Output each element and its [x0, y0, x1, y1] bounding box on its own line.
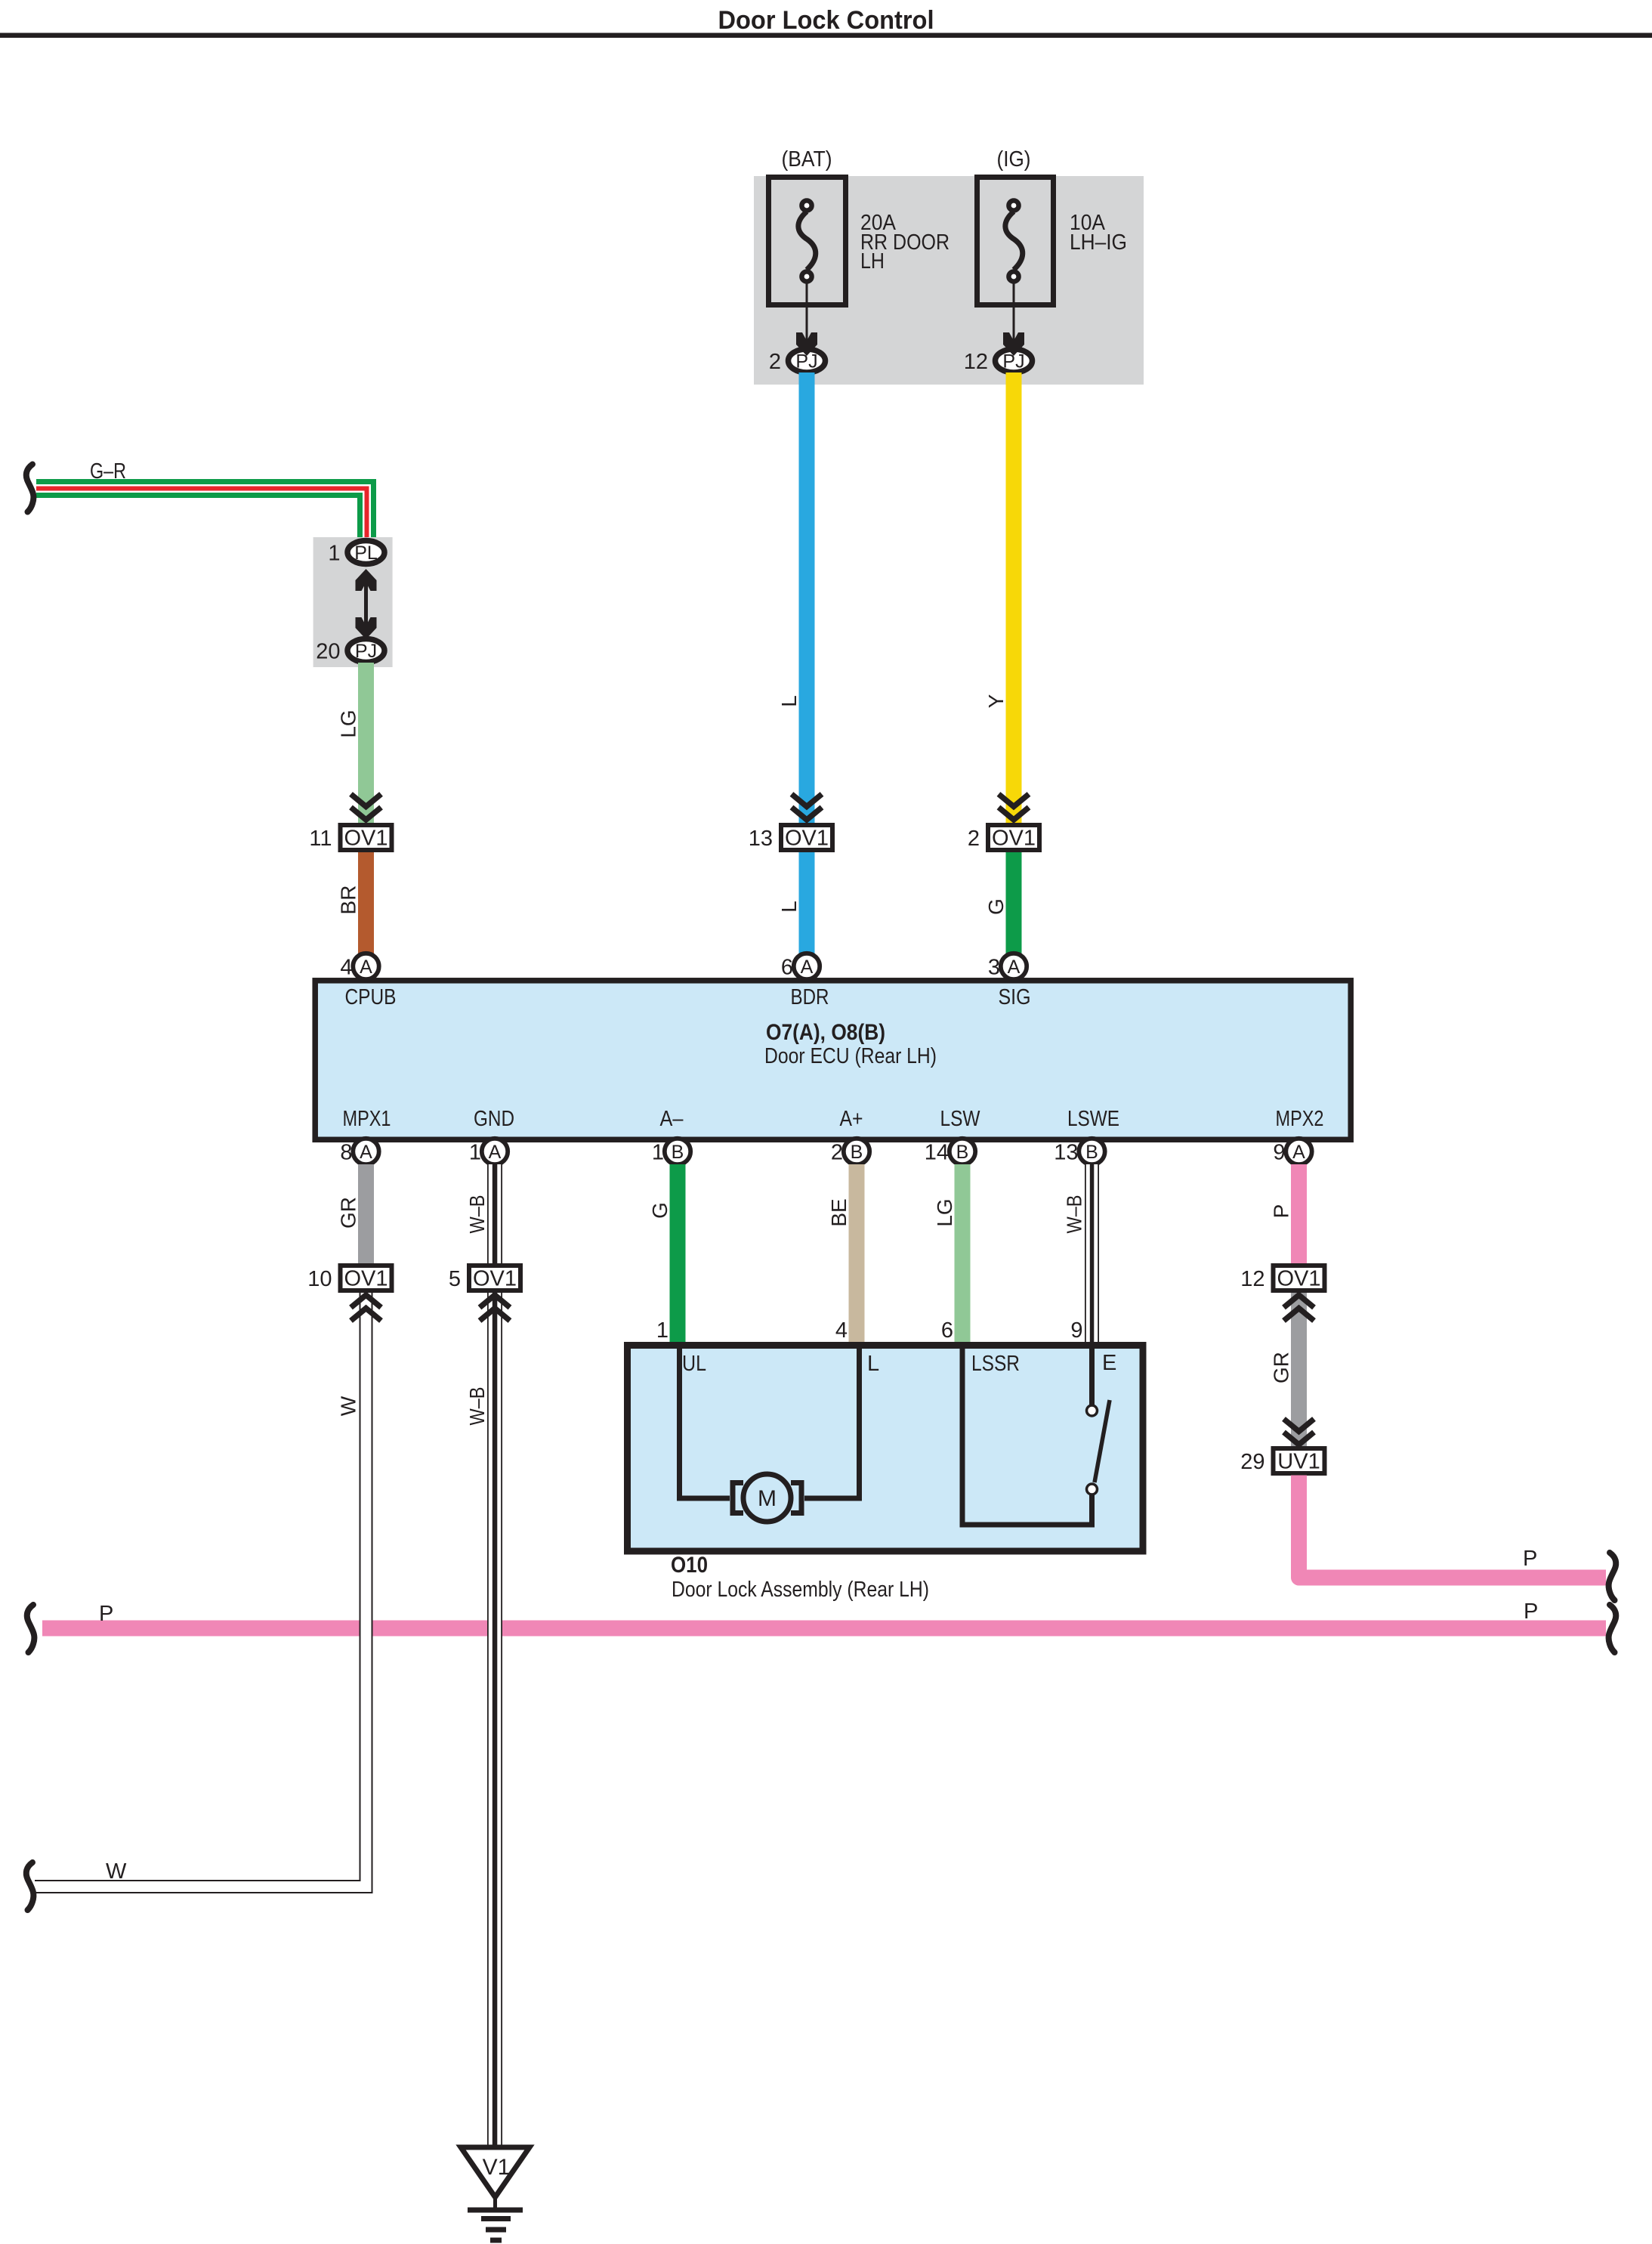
svg-text:A–: A–	[660, 1107, 684, 1131]
internal wire L to motor	[804, 1346, 860, 1498]
svg-text:P: P	[1524, 1600, 1538, 1624]
svg-text:W: W	[337, 1396, 360, 1416]
svg-text:3: 3	[988, 956, 1000, 980]
svg-text:2: 2	[769, 350, 781, 374]
wire break brace left G-R	[26, 465, 34, 512]
svg-text:LG: LG	[337, 709, 360, 737]
svg-text:O7(A), O8(B): O7(A), O8(B)	[766, 1020, 885, 1045]
svg-text:12: 12	[964, 350, 988, 374]
svg-text:A: A	[1008, 957, 1021, 978]
svg-text:LSWE: LSWE	[1067, 1107, 1119, 1131]
connector 1 PL	[347, 541, 384, 564]
wire Y (yellow) from PJ to OV1	[1006, 372, 1022, 824]
svg-text:LH–IG: LH–IG	[1070, 230, 1127, 255]
svg-text:LSSR: LSSR	[971, 1352, 1020, 1376]
switch contact bottom	[1087, 1484, 1098, 1494]
internal wire UL to motor	[680, 1346, 730, 1498]
ECU pin 6 A (BDR)	[794, 954, 820, 979]
svg-text:M: M	[758, 1486, 777, 1511]
svg-text:BR: BR	[337, 886, 360, 915]
svg-text:P: P	[1523, 1547, 1537, 1571]
svg-text:Door Lock Control: Door Lock Control	[718, 6, 934, 35]
wire break brace right	[1609, 1553, 1616, 1600]
wire G (green) from OV1 to SIG pin	[1006, 848, 1022, 954]
svg-text:(IG): (IG)	[997, 147, 1031, 172]
svg-text:UL: UL	[682, 1352, 706, 1376]
svg-text:1: 1	[652, 1141, 664, 1165]
wire BE (beige) from A+ pin to door lock pin 4	[849, 1164, 865, 1348]
svg-text:14: 14	[925, 1141, 949, 1165]
svg-text:5: 5	[449, 1267, 461, 1291]
motor brush right	[791, 1483, 801, 1513]
svg-text:20: 20	[316, 640, 340, 664]
switch contact top	[1087, 1405, 1098, 1416]
wire GR behind chevrons	[1291, 1293, 1307, 1334]
svg-text:GR: GR	[1270, 1352, 1293, 1383]
wire W behind chevrons	[360, 1293, 373, 1334]
connector 13 OV1 on wire L	[792, 794, 822, 807]
svg-text:B: B	[1085, 1142, 1098, 1163]
wire LG (light green) from PJ to OV1	[358, 663, 374, 824]
wire P (pink) from UV1 to right break	[1299, 1476, 1607, 1578]
svg-text:W: W	[106, 1859, 127, 1884]
svg-text:GR: GR	[337, 1197, 360, 1229]
connector 20 PJ	[347, 639, 384, 663]
svg-text:13: 13	[1054, 1141, 1078, 1165]
svg-text:OV1: OV1	[344, 827, 388, 851]
ECU pin 9 A (MPX2)	[1286, 1139, 1311, 1164]
wire W-B behind chevrons	[487, 1293, 502, 1334]
svg-text:A: A	[360, 957, 372, 978]
ECU pin 14 B (LSW)	[950, 1139, 975, 1164]
svg-text:G–R: G–R	[90, 459, 126, 484]
svg-text:OV1: OV1	[473, 1267, 517, 1291]
svg-text:9: 9	[1273, 1141, 1285, 1165]
svg-text:A: A	[360, 1142, 372, 1163]
motor M	[743, 1474, 791, 1522]
wire W-B from GND pin to OV1	[487, 1164, 502, 1266]
svg-text:B: B	[851, 1142, 863, 1163]
svg-text:SIG: SIG	[999, 985, 1031, 1009]
ground stem and bars	[493, 2197, 497, 2210]
svg-text:V1: V1	[483, 2155, 511, 2180]
svg-text:B: B	[956, 1142, 969, 1163]
wire W-B from LSWE pin to door lock pin 9	[1085, 1164, 1099, 1348]
motor brush left	[733, 1483, 743, 1513]
wire GR (gray) from MPX1 pin to OV1	[358, 1164, 374, 1266]
ECU pin 8 A (MPX1)	[353, 1139, 378, 1164]
fuse 10A LH-IG	[977, 178, 1054, 305]
ECU pin 1 B (A-)	[665, 1139, 690, 1164]
connector 10 OV1 on wire GR/W	[341, 1266, 392, 1290]
svg-text:P: P	[99, 1602, 113, 1626]
svg-text:L: L	[777, 695, 801, 707]
ECU pin 2 B (A+)	[844, 1139, 869, 1164]
svg-text:W–B: W–B	[465, 1387, 489, 1426]
svg-text:13: 13	[749, 827, 773, 851]
connector 29 UV1 on wire GR/P	[1274, 1448, 1325, 1473]
ECU pin 4 A (CPUB)	[353, 954, 378, 979]
svg-text:A: A	[801, 957, 814, 978]
svg-text:6: 6	[941, 1318, 953, 1343]
svg-text:4: 4	[340, 956, 352, 980]
Door ECU (Rear LH) box O7(A) O8(B)	[315, 981, 1351, 1140]
svg-text:LSW: LSW	[940, 1107, 981, 1131]
svg-text:GND: GND	[474, 1107, 514, 1131]
svg-text:A: A	[489, 1142, 502, 1163]
svg-text:MPX2: MPX2	[1276, 1107, 1324, 1131]
svg-text:1: 1	[656, 1318, 669, 1343]
wire break brace right P	[1609, 1605, 1616, 1652]
svg-text:G: G	[984, 898, 1008, 915]
svg-text:OV1: OV1	[1277, 1267, 1320, 1291]
svg-text:BE: BE	[827, 1198, 851, 1226]
bidirectional junction arrow between PL and PJ	[364, 574, 368, 631]
ECU pin 3 A (SIG)	[1001, 954, 1027, 979]
wire G-R (green-red) from left break	[36, 489, 367, 540]
svg-text:29: 29	[1240, 1450, 1264, 1474]
svg-text:B: B	[672, 1142, 684, 1163]
svg-text:LG: LG	[933, 1198, 956, 1226]
svg-text:12: 12	[1240, 1267, 1264, 1291]
ECU pin 13 B (LSWE)	[1079, 1139, 1104, 1164]
svg-text:10: 10	[307, 1267, 332, 1291]
wire G (green) from A- pin to door lock pin 1	[670, 1164, 686, 1348]
door lock assembly O10 box	[628, 1346, 1144, 1552]
wire W-B from OV1 down to ground V1	[487, 1323, 502, 2145]
wire break brace left P	[27, 1605, 35, 1652]
svg-text:CPUB: CPUB	[345, 985, 397, 1009]
connector 12 OV1 on wire P/GR	[1274, 1266, 1325, 1290]
wire BR (brown) from OV1 to CPUB pin	[358, 848, 374, 954]
connector 12 PJ	[996, 349, 1033, 372]
header rule	[0, 33, 1652, 39]
internal wire LSSR to switch	[962, 1346, 1092, 1525]
connector 2 PJ	[789, 349, 826, 372]
svg-text:W–B: W–B	[465, 1195, 489, 1234]
wire break brace left W	[26, 1862, 34, 1910]
svg-text:9: 9	[1070, 1318, 1082, 1343]
junction block shading (fuse box area)	[754, 176, 1144, 385]
wire W (white) from OV1 down and left to break	[35, 1323, 366, 1887]
svg-text:W–B: W–B	[1063, 1195, 1086, 1234]
svg-text:BDR: BDR	[791, 985, 829, 1009]
svg-text:4: 4	[835, 1318, 848, 1343]
switch lever	[1095, 1400, 1110, 1482]
svg-text:2: 2	[968, 827, 980, 851]
svg-text:G: G	[648, 1202, 672, 1219]
svg-text:1: 1	[328, 542, 340, 566]
connector 11 OV1 on wire LG/BR	[351, 794, 381, 807]
svg-text:E: E	[1102, 1351, 1116, 1375]
junction chevrons above UV1	[1284, 1419, 1314, 1432]
svg-text:Door ECU (Rear LH): Door ECU (Rear LH)	[764, 1044, 937, 1068]
long wire P (pink) across page	[42, 1621, 1606, 1637]
svg-text:LH: LH	[860, 249, 885, 274]
svg-text:OV1: OV1	[992, 827, 1036, 851]
ground V1 triangle	[461, 2147, 530, 2197]
svg-text:(BAT): (BAT)	[782, 147, 832, 172]
svg-text:A+: A+	[840, 1107, 863, 1131]
svg-text:11: 11	[309, 827, 332, 851]
fuse 20A RR DOOR LH	[769, 178, 846, 305]
svg-text:6: 6	[781, 956, 793, 980]
connector 2 OV1 on wire Y/G	[999, 794, 1029, 807]
wire LG (light green) from LSW pin to door lock pin 6	[955, 1164, 971, 1348]
svg-text:OV1: OV1	[785, 827, 829, 851]
svg-text:Y: Y	[984, 694, 1008, 708]
svg-text:O10: O10	[671, 1553, 708, 1578]
wire P (pink) from MPX2 pin to OV1	[1291, 1164, 1307, 1266]
svg-text:MPX1: MPX1	[343, 1107, 391, 1131]
svg-text:2: 2	[831, 1141, 843, 1165]
svg-text:L: L	[777, 901, 801, 913]
svg-text:Door Lock Assembly (Rear LH): Door Lock Assembly (Rear LH)	[672, 1578, 929, 1602]
svg-text:PJ: PJ	[355, 641, 377, 662]
ECU pin 1 A (GND)	[482, 1139, 508, 1164]
svg-text:OV1: OV1	[344, 1267, 388, 1291]
svg-text:8: 8	[340, 1141, 352, 1165]
wire GR (gray) from OV1 to UV1	[1291, 1323, 1307, 1446]
internal wire E to switch	[1089, 1346, 1095, 1405]
svg-text:P: P	[1270, 1204, 1293, 1219]
svg-text:UV1: UV1	[1277, 1450, 1320, 1474]
wire L (blue) from PJ to BDR pin	[799, 372, 815, 954]
svg-text:1: 1	[469, 1141, 481, 1165]
shading behind PL/PJ connectors	[313, 537, 393, 667]
svg-text:PL: PL	[354, 542, 378, 564]
svg-text:L: L	[867, 1352, 879, 1376]
connector 5 OV1 on wire W-B	[469, 1266, 520, 1290]
svg-text:A: A	[1292, 1142, 1305, 1163]
